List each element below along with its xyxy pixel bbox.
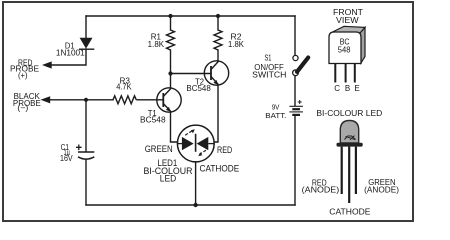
diode D1 bbox=[56, 38, 94, 58]
svg-text:1.8K: 1.8K bbox=[148, 40, 165, 49]
svg-text:(−): (−) bbox=[17, 104, 28, 113]
chip marks bbox=[345, 136, 356, 140]
wire top rail right drop to switch bbox=[294, 16, 296, 55]
transistor T2 bbox=[186, 61, 228, 93]
svg-text:GREEN: GREEN bbox=[145, 144, 173, 154]
wire R1 top bbox=[170, 16, 172, 30]
svg-text:C: C bbox=[334, 84, 340, 93]
svg-text:S1: S1 bbox=[265, 53, 272, 62]
node top rail R2 junction bbox=[216, 14, 220, 18]
leads bbox=[335, 64, 355, 83]
wire black probe line bbox=[50, 99, 113, 101]
svg-text:(ANODE): (ANODE) bbox=[364, 186, 399, 195]
svg-text:1.8K: 1.8K bbox=[228, 40, 245, 49]
wire bottom rail bbox=[86, 204, 295, 206]
wire R3 to T1 base bbox=[137, 99, 163, 101]
wire battery to bottom rail bbox=[294, 115, 296, 205]
wire C1 branch upper bbox=[85, 100, 87, 152]
svg-text:B: B bbox=[345, 84, 350, 93]
LED body bbox=[340, 121, 358, 144]
svg-text:(ANODE): (ANODE) bbox=[302, 186, 340, 195]
transistor T1 bbox=[140, 88, 181, 125]
red probe arrow bbox=[10, 58, 52, 80]
capacitor C1 bbox=[60, 143, 94, 163]
svg-text:BC548: BC548 bbox=[186, 84, 210, 93]
svg-text:BC548: BC548 bbox=[140, 115, 166, 124]
legs bbox=[342, 147, 356, 203]
wire T2 base tap bbox=[171, 73, 212, 75]
bi-colour LED illustration bbox=[302, 109, 400, 216]
wire T2 emitter to LED red anode bbox=[214, 85, 218, 142]
wire diode branch top bbox=[85, 16, 87, 38]
svg-text:4.7K: 4.7K bbox=[116, 83, 132, 92]
wire top rail bbox=[86, 15, 295, 17]
top face bbox=[331, 26, 366, 33]
emission arrow bottom bbox=[198, 150, 206, 156]
wire T1 emitter to LED green anode bbox=[171, 112, 178, 142]
resistor R1 bbox=[148, 30, 175, 50]
svg-text:E: E bbox=[354, 84, 359, 93]
front face bbox=[329, 32, 361, 64]
wire diode to red probe corner bbox=[51, 49, 86, 65]
battery BT1 9V bbox=[265, 100, 303, 120]
wire R2 bottom to T2 collector bbox=[217, 50, 219, 62]
svg-text:548: 548 bbox=[338, 46, 351, 55]
resistor R2 bbox=[214, 30, 245, 50]
wire R1 bottom to T1 collector bbox=[170, 50, 172, 88]
svg-text:LED: LED bbox=[160, 174, 176, 184]
emission arrow top bbox=[185, 129, 195, 135]
node top rail R1 junction bbox=[168, 14, 172, 18]
wire LED cathode to bottom rail bbox=[195, 162, 197, 205]
wire switch to battery bbox=[294, 76, 296, 106]
svg-text:SWITCH: SWITCH bbox=[252, 70, 286, 79]
svg-text:RED: RED bbox=[217, 145, 232, 155]
right face bbox=[360, 27, 365, 63]
node black probe / C1 junction bbox=[84, 98, 88, 102]
LED LED1 bi-colour symbol bbox=[144, 125, 240, 183]
svg-text:CATHODE: CATHODE bbox=[329, 206, 371, 216]
wire C1 branch lower bbox=[85, 160, 87, 205]
svg-text:VIEW: VIEW bbox=[336, 16, 359, 25]
svg-text:BATT.: BATT. bbox=[265, 111, 286, 120]
resistor R3 bbox=[113, 77, 136, 104]
svg-text:16V: 16V bbox=[60, 154, 73, 163]
switch S1 bbox=[252, 53, 308, 79]
svg-text:BI-COLOUR LED: BI-COLOUR LED bbox=[316, 109, 382, 118]
svg-text:CATHODE: CATHODE bbox=[200, 164, 240, 174]
transistor front view illustration bbox=[329, 8, 365, 93]
svg-text:(+): (+) bbox=[18, 71, 28, 80]
node bottom rail cathode junction bbox=[193, 203, 197, 207]
svg-text:1N1001: 1N1001 bbox=[56, 49, 85, 58]
flange bbox=[337, 143, 363, 147]
node T2 base tap junction bbox=[168, 71, 172, 75]
black probe arrow bbox=[13, 92, 50, 112]
wire R2 top bbox=[217, 16, 219, 30]
